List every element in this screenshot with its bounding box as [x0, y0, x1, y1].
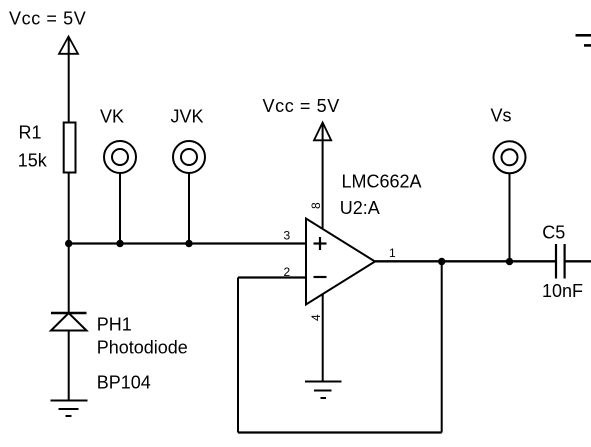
- terminal Vs: [494, 141, 526, 173]
- terminal JVK: [173, 141, 205, 173]
- op-amp plus sign: [314, 237, 327, 250]
- svg-text:LMC662A: LMC662A: [342, 172, 422, 192]
- resistor R1: [64, 123, 76, 173]
- svg-text:15k: 15k: [18, 151, 48, 171]
- junction node JVK: [185, 240, 192, 247]
- wire arrow to resistor: [68, 37, 70, 122]
- svg-text:1: 1: [389, 246, 396, 260]
- wire op-amp pin 2: [238, 276, 306, 278]
- wire VK to bus: [119, 174, 121, 245]
- svg-text:PH1: PH1: [97, 315, 132, 335]
- junction node VK: [116, 240, 123, 247]
- wire output pin 1: [375, 260, 556, 262]
- photodiode PH1: [51, 313, 87, 331]
- svg-text:Vcc = 5V: Vcc = 5V: [263, 96, 340, 116]
- svg-text:C5: C5: [542, 223, 565, 243]
- power arrow symbol (middle Vcc): [314, 123, 331, 141]
- power arrow symbol (left Vcc): [59, 37, 78, 54]
- svg-text:Vcc = 5V: Vcc = 5V: [9, 9, 86, 29]
- svg-text:BP104: BP104: [97, 373, 151, 393]
- wire JVK to bus: [188, 174, 190, 245]
- svg-text:10nF: 10nF: [542, 281, 583, 301]
- svg-text:4: 4: [309, 314, 323, 321]
- wire op-amp pin 4 to ground: [322, 294, 324, 382]
- wire node to photodiode: [68, 244, 70, 314]
- feedback wire bottom: [238, 431, 442, 433]
- ground (below op-amp): [305, 382, 342, 399]
- svg-text:Photodiode: Photodiode: [97, 338, 188, 358]
- op-amp minus sign: [314, 276, 327, 278]
- svg-text:8: 8: [309, 202, 323, 209]
- svg-text:Vs: Vs: [491, 106, 512, 126]
- feedback wire right vertical: [441, 262, 443, 433]
- wire C5 to right edge: [565, 260, 591, 262]
- svg-text:JVK: JVK: [171, 107, 204, 127]
- capacitor C5: [556, 244, 565, 279]
- wire resistor to node A: [68, 173, 70, 245]
- feedback wire left vertical: [237, 278, 239, 433]
- svg-text:3: 3: [284, 229, 291, 243]
- wire Vs to output: [509, 174, 511, 262]
- ground (left): [51, 401, 88, 417]
- op-amp U2:A: [306, 219, 375, 305]
- junction node feedback: [438, 258, 445, 265]
- wire bus to op-amp pin 3: [69, 242, 306, 244]
- terminal VK: [104, 141, 136, 173]
- svg-text:VK: VK: [100, 107, 124, 127]
- wire photodiode to ground: [68, 331, 70, 401]
- junction node Vs: [506, 258, 513, 265]
- svg-text:U2:A: U2:A: [340, 198, 380, 218]
- svg-text:R1: R1: [19, 123, 42, 143]
- wire Vcc to op-amp pin 8: [322, 123, 324, 228]
- junction node at resistor/photodiode: [65, 240, 72, 247]
- partial symbol top-right: [576, 35, 591, 45]
